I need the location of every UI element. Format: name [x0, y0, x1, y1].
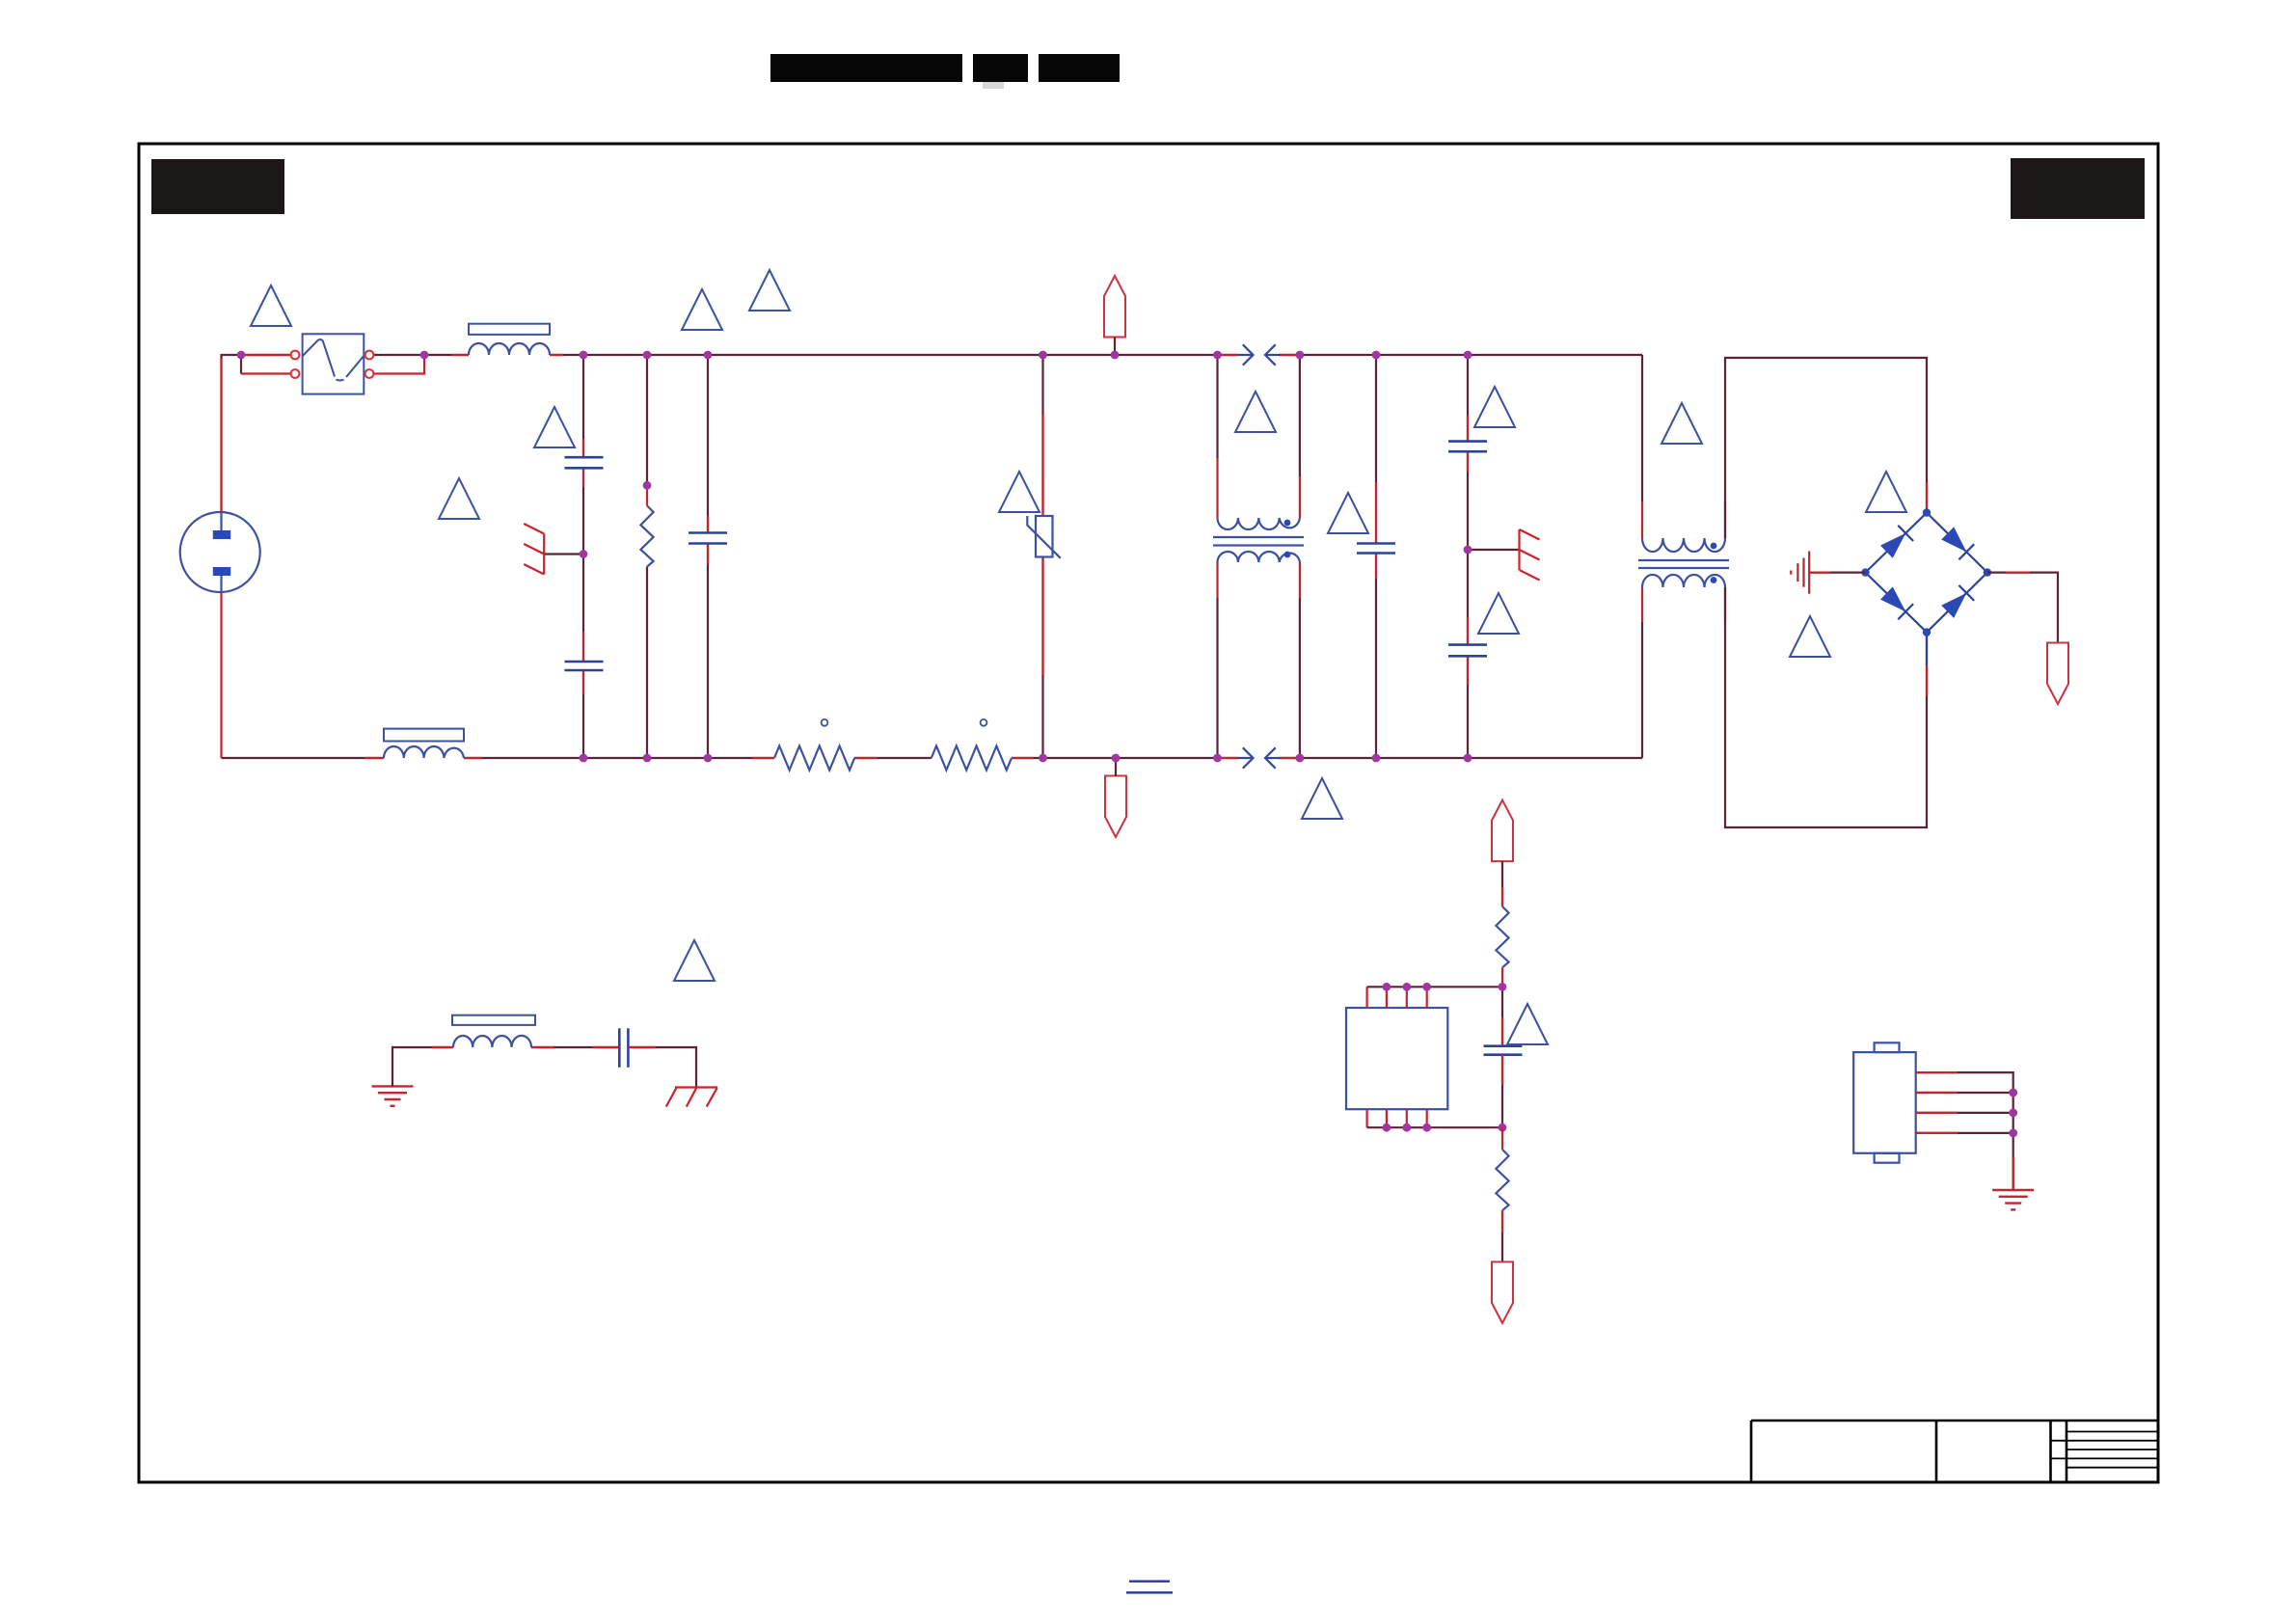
- AC plug P1: [180, 512, 260, 592]
- resistor R5 vertical: [1496, 1150, 1508, 1210]
- warning triangle 15: [674, 940, 715, 981]
- wire: plug bottom to bottom bus: [220, 592, 222, 758]
- spark gap bottom SG2: [1237, 747, 1281, 768]
- red stub at bridge output: [2006, 571, 2030, 573]
- connector J2 wires: [1916, 1072, 2013, 1190]
- column CX3: capacitor at x=1427: [1375, 355, 1377, 758]
- column RV1: varistor at x=1081.5: [1041, 355, 1043, 758]
- warning triangle 9: [1474, 387, 1515, 427]
- IC U1 box: [1346, 1008, 1447, 1109]
- wire: node A to cap C7: [1501, 987, 1503, 1045]
- connector J2 junction dots: [2009, 1089, 2017, 1138]
- red stubs col 1522: [1467, 415, 1469, 685]
- IC top pin wires: [1367, 987, 1427, 1008]
- wire: R4 to node A: [1501, 967, 1503, 987]
- warning triangle 11: [1661, 403, 1702, 444]
- connector arrow J-B1 up: [1492, 800, 1513, 862]
- capacitor CY4 (col 1427): [1357, 544, 1395, 554]
- wire: bottom bus to arrow: [1115, 758, 1117, 776]
- warning triangle 13: [1866, 472, 1906, 512]
- resistor R2: [932, 746, 1012, 771]
- red stub below R5: [1501, 1210, 1503, 1232]
- red stub after CZ1: [628, 1046, 656, 1048]
- transformer T2 red leg stubs: [1642, 501, 1725, 622]
- transformer T1 windings: [1213, 518, 1304, 562]
- transformer T1 red leg stubs: [1218, 458, 1300, 598]
- wire: fuse lower branch left: [240, 355, 242, 374]
- red stubs secondary loop at bridge: [1926, 482, 1928, 696]
- capacitor CY1 top (col 605): [565, 457, 604, 468]
- red stub before L3: [432, 1046, 453, 1048]
- transformer T2 legs: [1641, 355, 1643, 758]
- red stub after L3: [531, 1046, 554, 1048]
- resistor R3 vertical (col 671): [640, 505, 653, 566]
- transformer T2 phase dots: [1711, 543, 1717, 550]
- transformer T1 phase dots: [1284, 520, 1291, 527]
- earth ground E2: [1992, 1190, 2034, 1209]
- red stub above C7: [1501, 1017, 1503, 1046]
- redaction box top-right: [2011, 158, 2145, 219]
- wire: bridge output to connector: [1987, 573, 2058, 643]
- wire: red pin stubs on top bus: [241, 354, 1300, 356]
- capacitor CY5 top (col 1522): [1448, 442, 1487, 452]
- chassis ground right (col 1522): [1520, 529, 1540, 581]
- wire: bottom bus L2 to resistor R1: [464, 757, 774, 759]
- fuse F1: [291, 334, 374, 393]
- connector arrow J-AC2 down at x=1157: [1105, 776, 1126, 838]
- node A dot: [1499, 983, 1507, 991]
- varistor RV1 body: [1027, 516, 1061, 558]
- wire: arrow stub to top bus: [1114, 338, 1116, 356]
- wire: top bus L1 to spark gap: [550, 354, 1238, 356]
- junction dots mid columns: [580, 481, 1472, 558]
- pilot circle above R1: [822, 719, 828, 726]
- capacitor C7: [1484, 1046, 1523, 1055]
- pilot circle above R2: [981, 719, 987, 726]
- IC pin junction dots: [1383, 983, 1432, 1132]
- wire: R5 to bottom arrow: [1501, 1210, 1503, 1261]
- resistor R1: [774, 746, 854, 771]
- signal earth antenna left of bridge: [1791, 552, 1809, 594]
- warning triangle 4: [534, 407, 575, 447]
- bridge rectifier D1 frame: [1866, 513, 1987, 633]
- wire: top bus left segment to fuse: [222, 355, 292, 512]
- title text redaction bar 2: [973, 54, 1028, 82]
- red stub before CZ1: [593, 1046, 619, 1048]
- wire: bottom bus R2 to spark gap: [1012, 757, 1238, 759]
- resistor R4 vertical: [1496, 907, 1508, 967]
- wire: fuse right pins to node: [374, 355, 425, 374]
- junction dots bottom bus: [580, 754, 1472, 763]
- junction dots top bus: [237, 351, 1472, 360]
- wire: L3 to capacitor CZ1: [531, 1046, 619, 1048]
- wire: earth to bridge left node: [1809, 571, 1865, 573]
- capacitor CY3 (col 734): [689, 533, 727, 544]
- bridge diode bottom-right: [1941, 585, 1974, 618]
- wire: CZ1 to chassis: [628, 1047, 696, 1088]
- inductor L1: [469, 324, 550, 355]
- bridge diode bottom-left: [1880, 586, 1913, 619]
- inductor L3: [452, 1015, 535, 1047]
- column RX1: bleeder resistor at x=671: [646, 355, 648, 758]
- warning triangle 2: [682, 289, 722, 330]
- warning triangle 14: [1302, 778, 1342, 819]
- column CX4: series caps at x=1522: [1467, 355, 1469, 758]
- drawing frame border: [139, 144, 2158, 1482]
- red stubs col 1427: [1375, 482, 1377, 579]
- title block bottom-right: [1751, 1421, 2158, 1482]
- warning triangle 10: [1478, 593, 1519, 634]
- column CX1: wire with caps at x=605: [582, 355, 584, 758]
- blue stubs at bridge AC nodes: [1926, 508, 1928, 665]
- connector arrow J-B2 down: [1492, 1262, 1513, 1324]
- wire: secondary loop top: [1725, 358, 1927, 538]
- wire: chassis branch at col 605: [544, 553, 583, 555]
- bridge diode top-right: [1941, 527, 1974, 559]
- wire: node B to resistor R5: [1501, 1127, 1503, 1150]
- title text redaction bar 3: [1039, 54, 1120, 82]
- earth ground E1: [372, 1086, 414, 1105]
- wire: bottom bus R1 to R2: [854, 757, 932, 759]
- connector arrow J-DC down: [2047, 643, 2068, 705]
- bridge diode top-left: [1880, 526, 1913, 558]
- red stub above R4: [1501, 887, 1503, 907]
- title text redaction bar 1: [770, 54, 962, 82]
- wire: secondary loop bottom: [1725, 587, 1927, 827]
- connector J2 red wire stubs: [1916, 1072, 2013, 1190]
- warning triangle 1: [251, 285, 291, 326]
- bridge node dots: [1861, 508, 1991, 636]
- capacitor CY6 bottom (col 1522): [1448, 645, 1487, 657]
- red part of earth wire: [1809, 571, 1830, 573]
- wire: plug top red: [220, 359, 222, 512]
- capacitor CY2 bottom (col 605): [565, 662, 604, 670]
- inductor L2: [384, 729, 464, 758]
- red stub below C7: [1501, 1055, 1503, 1085]
- node B dot: [1499, 1123, 1507, 1132]
- red stubs varistor: [1041, 415, 1043, 675]
- faint smudge under bar 2: [983, 82, 1004, 89]
- wire: red pin stubs on bottom bus: [365, 757, 1300, 759]
- warning triangle 6: [999, 472, 1040, 512]
- wire: earth up and right to L3: [392, 1047, 453, 1086]
- red stubs col 734: [707, 516, 709, 564]
- capacitor CZ1 (vertical plates): [619, 1028, 628, 1068]
- redaction box top-left: [151, 159, 284, 214]
- red stub below junction on col 671: [646, 489, 648, 505]
- chassis ground left (col 605): [524, 524, 544, 575]
- spark gap top SG1: [1237, 344, 1281, 365]
- wire: top bus fuse to inductor L1: [374, 354, 470, 356]
- wire: top bus right of spark gap to T2: [1279, 354, 1642, 356]
- IC top bus wire: [1367, 986, 1502, 988]
- transformer T2 windings: [1638, 538, 1729, 587]
- warning triangle 3: [749, 270, 790, 311]
- connector J2 body: [1853, 1042, 1916, 1162]
- wire: C7 to node B: [1501, 1055, 1503, 1128]
- IC bottom bus wire: [1367, 1126, 1502, 1128]
- wire: bottom bus right of spark gap to T2: [1279, 757, 1642, 759]
- wire: chassis branch col 1522: [1468, 549, 1520, 551]
- wire: bottom bus plug to inductor L2: [222, 757, 385, 759]
- warning triangle 12: [1790, 616, 1830, 657]
- IC bottom pin wires: [1367, 1109, 1427, 1127]
- warning triangle 8: [1328, 493, 1368, 533]
- warning triangle 5: [439, 478, 479, 519]
- red stubs column 605: [582, 439, 584, 694]
- wire: arrow to resistor R4: [1501, 861, 1503, 907]
- chassis ground hatch CG1: [666, 1088, 717, 1107]
- warning triangle 16: [1507, 1004, 1548, 1044]
- transformer T1 legs: [1218, 355, 1300, 758]
- warning triangle 7: [1235, 392, 1276, 432]
- page number underline marks bottom center: [1126, 1582, 1173, 1593]
- connector arrow J-AC1 up at x=1156: [1104, 276, 1125, 338]
- column CX2: capacitor at x=734: [707, 355, 709, 758]
